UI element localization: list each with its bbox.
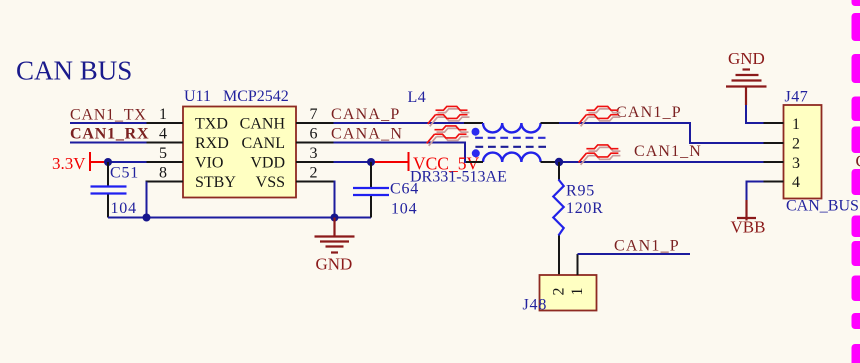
sheet ports strip at right edge [852,0,860,363]
svg-text:CAN1_RX: CAN1_RX [70,126,149,143]
svg-text:1: 1 [792,116,800,133]
svg-text:CANA_N: CANA_N [331,126,403,143]
svg-text:2: 2 [551,288,568,296]
junction node 3.3V/C51 [104,158,112,166]
svg-text:CANA_P: CANA_P [331,106,400,123]
svg-text:120R: 120R [566,200,603,217]
svg-text:CAN1_N: CAN1_N [634,143,702,160]
wire CAN1_N from choke to J47 pin3 [559,161,764,163]
ground symbol top right [726,70,767,106]
U11 pin 5 [146,161,184,163]
L4 bottom polarity dot [472,149,480,157]
svg-text:4: 4 [792,174,800,191]
svg-text:104: 104 [391,201,417,218]
connector J48 body [540,275,597,311]
svg-text:CAN1_P: CAN1_P [614,238,680,255]
ground symbol under U11 [315,218,355,253]
svg-text:VDD: VDD [250,155,285,172]
svg-text:STBY: STBY [195,174,236,191]
J48 pin 1 stub [577,254,579,275]
wire VDD to VCC junction [334,161,372,163]
diff-pair directive on CANA_N [427,126,469,146]
U11 pin 8 [146,181,184,183]
power port VCC_5V [371,161,409,163]
L4 pin 1 stub [464,122,483,124]
svg-text:CAN1_P: CAN1_P [616,104,682,121]
U11 pin 3 [296,161,334,163]
svg-text:4: 4 [159,126,167,143]
L4 top winding [483,123,541,132]
svg-text:2: 2 [792,136,800,153]
capacitor C64 [353,162,389,218]
svg-text:R95: R95 [566,183,595,200]
svg-text:104: 104 [111,200,137,217]
wire 3.3V to pin 5 [108,161,147,163]
inductor L4 common-mode choke [464,123,559,162]
wire pin7 to choke [334,122,465,124]
U11 pin 7 [296,122,334,124]
U11 pin 1 [146,122,184,124]
junction node pin2/bus/ground [331,214,339,222]
U11 pin 6 [296,142,334,144]
svg-text:CAN BUS: CAN BUS [16,56,132,86]
wire pin6 to choke (elbow) [334,143,467,163]
wire CAN1_TX to pin 1 [70,122,147,124]
diff-pair directive on CANA_P [428,106,470,126]
svg-text:J47: J47 [785,89,809,106]
svg-text:1: 1 [159,106,167,123]
junction node choke/R95 [555,158,563,166]
svg-text:2: 2 [310,165,318,182]
connector J47 body [784,105,822,199]
svg-text:CANH: CANH [240,116,286,133]
svg-text:GND: GND [316,255,353,274]
svg-text:7: 7 [310,106,318,123]
U11 pin 4 [146,142,184,144]
diff-pair directive on CAN1_P [579,106,621,126]
svg-text:VSS: VSS [256,174,285,191]
svg-text:8: 8 [159,165,167,182]
junction node VDD/C64 [367,158,375,166]
wire CAN1_RX to pin 4 [70,142,147,144]
L4 bottom-left pin stub [466,161,483,163]
resistor R95 [553,162,563,275]
power port VBB [737,200,756,221]
svg-text:C51: C51 [110,165,139,182]
svg-text:U11 MCP2542: U11 MCP2542 [184,88,289,105]
wire J47 pin4 to VBB [747,182,764,201]
svg-text:3: 3 [310,145,318,162]
svg-text:6: 6 [310,126,318,143]
wire CAN1_P from choke to J47 pin2 [559,123,764,143]
diff-pair directive on CAN1_N [579,145,621,165]
U11 pin 2 [296,181,334,183]
svg-text:TXD: TXD [195,116,228,133]
J47 pin 1 [764,122,784,124]
svg-text:CANL: CANL [241,135,285,152]
L4 core dashed lines [475,137,545,139]
wire CAN1_P at J48 [578,253,691,255]
svg-text:CAN1_TX: CAN1_TX [70,107,147,124]
svg-text:C: C [856,152,860,171]
svg-text:L4: L4 [408,89,427,106]
capacitor C51 [91,162,127,218]
svg-text:DR331-513AE: DR331-513AE [410,169,507,186]
wire pin 8 down to bus [146,182,148,218]
svg-text:1: 1 [569,288,586,296]
svg-text:VBB: VBB [731,218,766,237]
J47 pin 4 [764,181,784,183]
svg-text:3.3V: 3.3V [52,154,86,173]
svg-text:CAN_BUS: CAN_BUS [786,198,859,215]
L4 top polarity dot [472,128,480,136]
J47 pin 2 [764,142,784,144]
wire pin 2 down to bus [334,182,335,218]
svg-text:5: 5 [159,145,167,162]
svg-text:3: 3 [792,155,800,172]
svg-text:J48: J48 [523,297,548,314]
wire ground bus under U11 [108,217,371,219]
junction node pin8/bus [143,214,151,222]
wire J47 pin1 to GND [746,105,764,123]
svg-text:RXD: RXD [195,135,229,152]
L4 bottom-right pin stub [541,161,560,163]
L4 top-right pin stub [541,122,560,124]
svg-text:GND: GND [728,49,765,68]
J47 pin 3 [764,161,784,163]
IC U11 MCP2542 body [183,107,296,198]
L4 bottom winding [483,153,541,162]
svg-text:VIO: VIO [195,155,223,172]
U11 pin names [195,116,285,192]
